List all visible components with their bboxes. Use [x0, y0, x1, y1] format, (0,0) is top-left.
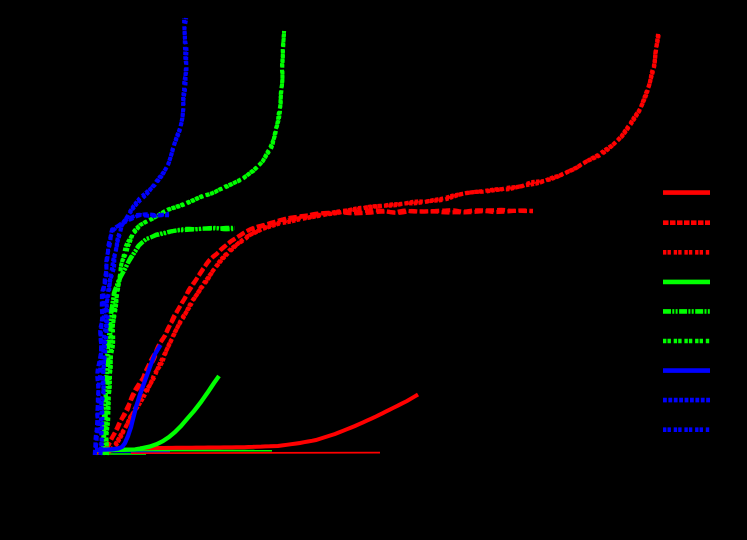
green dash-dot-dot curve [103, 228, 235, 455]
legend green dotted [663, 339, 710, 344]
legend red dotted [663, 250, 710, 255]
legend red dashed [663, 220, 710, 225]
red dotted curve [98, 34, 659, 453]
legend green solid [663, 280, 710, 285]
red dashed curve [96, 210, 533, 452]
legend blue dashed [663, 398, 710, 403]
wire: green near-zero baseline [95, 450, 272, 452]
wire: red near-zero baseline [131, 452, 380, 455]
red solid curve [140, 395, 418, 449]
green solid curve [95, 376, 219, 451]
legend blue dotted [663, 427, 710, 432]
wire: blue near-zero baseline [95, 451, 170, 453]
blue dashed curve [95, 214, 169, 455]
blue dotted curve [100, 18, 186, 455]
legend blue solid [663, 368, 710, 373]
legend green dash-dot-dot [663, 309, 710, 314]
blue solid curve [95, 345, 161, 450]
wire: green lower baseline [95, 453, 146, 455]
green dotted curve [106, 31, 284, 455]
legend red solid [663, 190, 710, 195]
